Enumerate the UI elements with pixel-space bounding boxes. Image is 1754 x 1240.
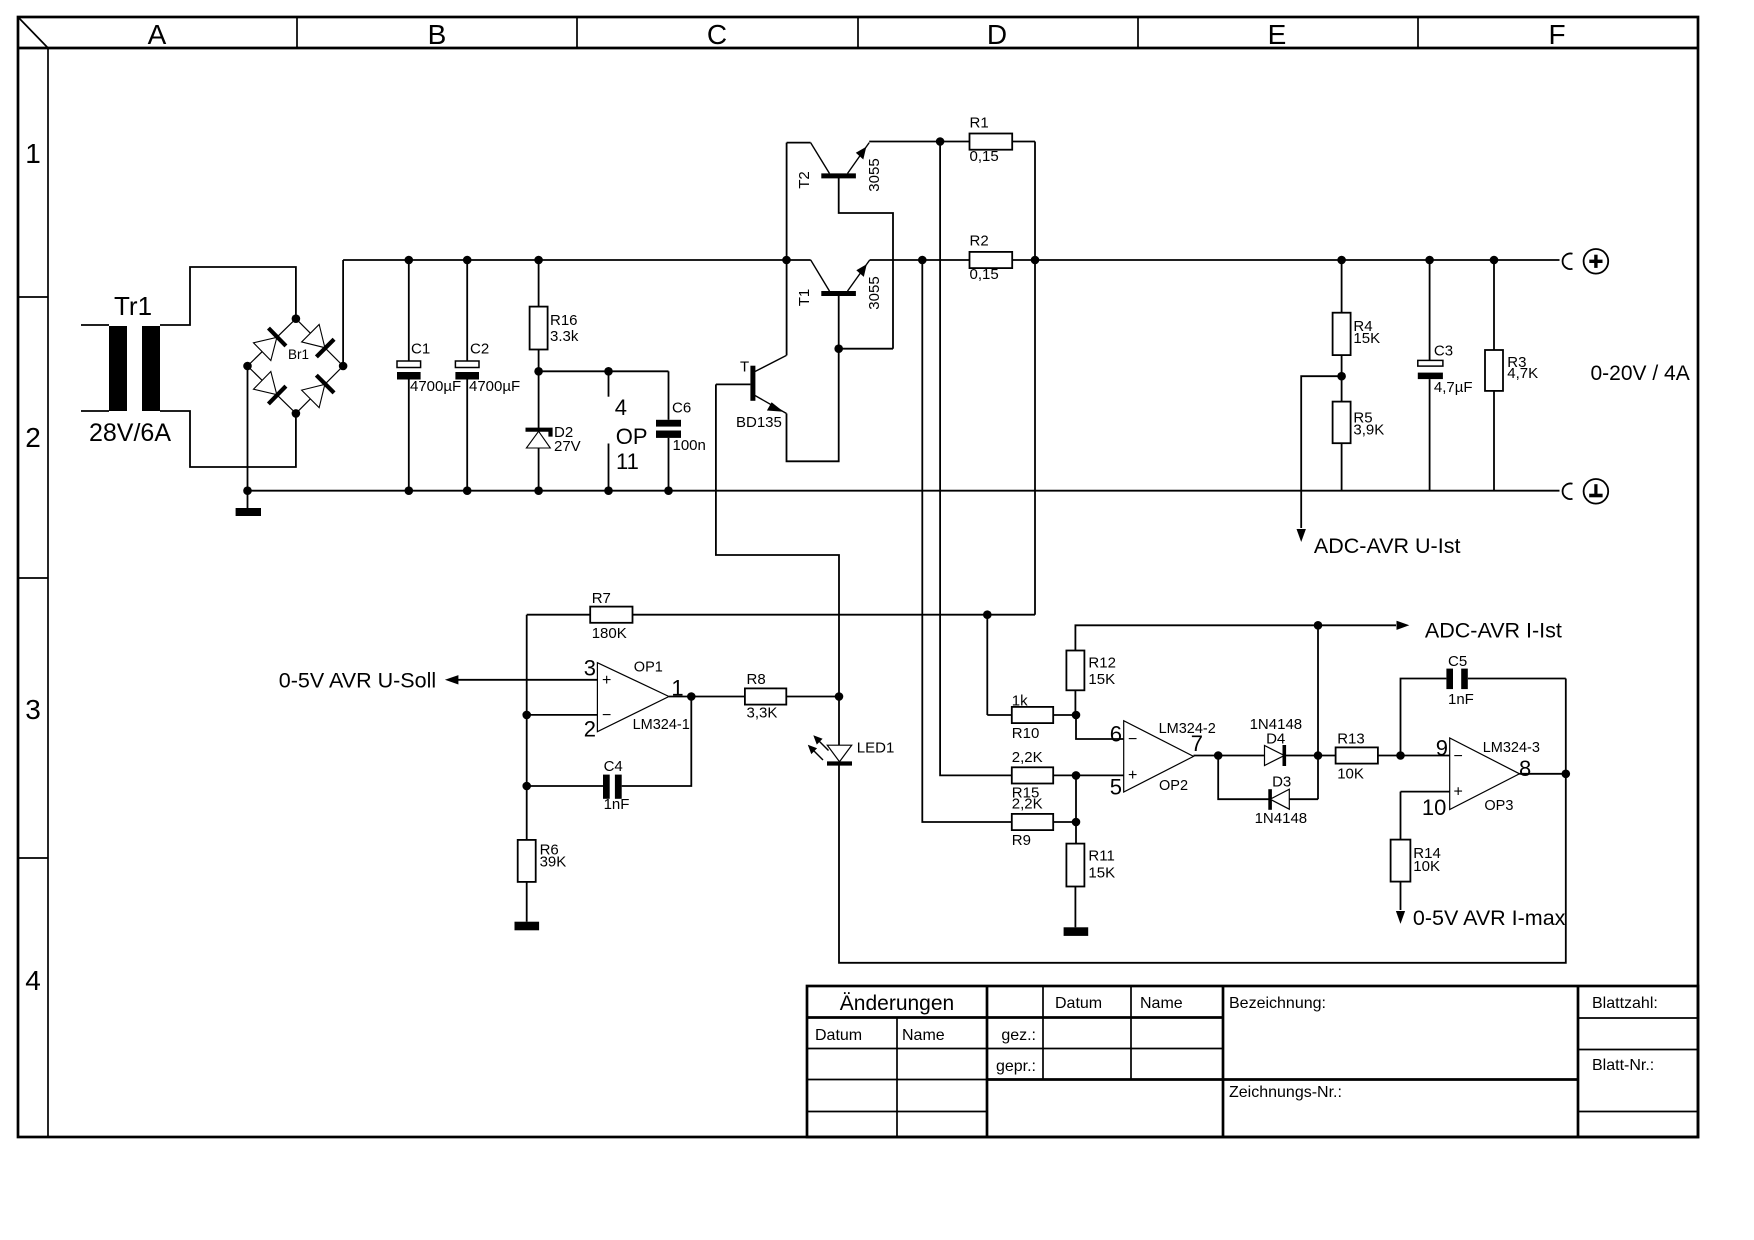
svg-text:D4: D4 (1266, 731, 1285, 748)
capacitor C5 (1401, 653, 1566, 756)
svg-text:15K: 15K (1088, 671, 1115, 688)
svg-text:C1: C1 (411, 341, 430, 358)
node I-Ist junction (1314, 621, 1323, 630)
svg-text:3: 3 (584, 655, 596, 680)
node OP3 output junction (1562, 770, 1571, 779)
svg-text:6: 6 (1110, 721, 1122, 746)
resistor R5 (1333, 376, 1385, 491)
svg-text:R9: R9 (1012, 832, 1031, 849)
svg-text:2: 2 (584, 717, 596, 742)
svg-text:gez.:: gez.: (1001, 1027, 1036, 1044)
svg-text:4: 4 (25, 965, 41, 996)
svg-text:1: 1 (25, 138, 41, 169)
wire T base drive line down (716, 384, 839, 696)
capacitor C2 (455, 260, 520, 491)
resistor R16 (530, 260, 579, 371)
svg-text:R8: R8 (747, 671, 766, 688)
svg-text:C5: C5 (1448, 653, 1467, 670)
wire C5 right down to OP3 output (1565, 679, 1567, 774)
svg-text:15K: 15K (1088, 864, 1115, 881)
svg-text:+: + (1128, 767, 1137, 784)
wire current sense line from R1 left (940, 142, 1012, 776)
svg-text:LM324-2: LM324-2 (1159, 721, 1216, 737)
svg-text:2,2K: 2,2K (1012, 796, 1043, 813)
diode D3 (1255, 774, 1318, 827)
wire top bus raw (343, 259, 811, 261)
svg-text:Name: Name (902, 1027, 945, 1044)
arrow 0-5V AVR I-max (1396, 911, 1405, 924)
op-amp OP3 (1401, 735, 1540, 820)
svg-text:4700µF: 4700µF (469, 378, 520, 395)
svg-text:10K: 10K (1413, 858, 1440, 875)
wire OP3 output (1520, 773, 1566, 775)
wire divider vertical (1075, 775, 1077, 843)
node R16/D2 junction (534, 367, 543, 376)
svg-text:100n: 100n (673, 437, 706, 454)
node output bus dots (918, 256, 1498, 265)
svg-text:3: 3 (25, 694, 41, 725)
LED LED1 (808, 697, 895, 764)
svg-text:1k: 1k (1012, 693, 1028, 710)
svg-text:7: 7 (1191, 731, 1203, 756)
op-amp supply pin 11 stub (608, 444, 610, 491)
wire base junction to T2 base (839, 348, 893, 350)
svg-text:−: − (1128, 731, 1137, 748)
transformer Tr1 (81, 291, 171, 447)
svg-text:Änderungen: Änderungen (840, 992, 954, 1015)
svg-text:0,15: 0,15 (970, 148, 999, 165)
wire vcc branch to op supply and C6 (539, 370, 669, 372)
svg-text:D3: D3 (1272, 774, 1291, 791)
svg-text:0-20V / 4A: 0-20V / 4A (1591, 362, 1690, 385)
transistor T BD135 (716, 355, 787, 431)
svg-text:3,9K: 3,9K (1353, 421, 1384, 438)
svg-text:T: T (740, 359, 749, 376)
svg-text:C6: C6 (672, 400, 691, 417)
svg-text:10K: 10K (1337, 765, 1364, 782)
svg-text:Blattzahl:: Blattzahl: (1592, 995, 1658, 1012)
zener diode D2 (526, 371, 581, 490)
wire T2 collector down to bus (786, 143, 788, 356)
arrow ADC-AVR I-Ist (1318, 624, 1396, 626)
svg-text:+: + (602, 672, 611, 689)
op-amp OP2 (1110, 721, 1216, 800)
wire current sense line from R2 left (922, 260, 1012, 822)
wire OP1 inverting node vertical (526, 615, 528, 840)
wire to OP2 pin 6 (1076, 715, 1124, 739)
svg-text:R1: R1 (970, 115, 989, 132)
wire Tr1 secondary bottom to bridge AC2 (160, 411, 296, 467)
svg-text:0-5V AVR I-max: 0-5V AVR I-max (1413, 906, 1566, 930)
wire OP2 output (1194, 755, 1265, 757)
resistor R4 (1333, 260, 1381, 376)
capacitor C1 (397, 260, 461, 491)
TITLE BLOCK (807, 986, 1698, 1137)
svg-text:T1: T1 (796, 289, 813, 307)
resistor R11 (1066, 844, 1115, 928)
capacitor C6 (656, 371, 706, 490)
svg-text:C4: C4 (604, 758, 623, 775)
svg-text:Name: Name (1140, 995, 1183, 1012)
svg-text:R7: R7 (592, 590, 611, 607)
wire bottom bus 0V (248, 490, 1560, 492)
resistor R10 (987, 693, 1076, 742)
node R1 left sense tap (936, 137, 945, 146)
svg-text:ADC-AVR U-Ist: ADC-AVR U-Ist (1314, 534, 1461, 558)
svg-text:LED1: LED1 (857, 740, 895, 757)
node R13 right junction (1396, 751, 1405, 760)
svg-text:4700µF: 4700µF (410, 378, 461, 395)
svg-text:4: 4 (615, 395, 627, 420)
svg-text:R10: R10 (1012, 725, 1040, 742)
wire T emitter to base junction (787, 349, 839, 462)
node OP2 output junction (1214, 751, 1223, 760)
op-amp OP1 (445, 655, 690, 741)
svg-text:0-5V AVR U-Soll: 0-5V AVR U-Soll (279, 669, 436, 693)
resistor R15 (1012, 749, 1124, 802)
ground (236, 491, 261, 516)
node op supply stub (604, 367, 613, 376)
resistor R13 (1318, 731, 1450, 783)
ground R11 (1064, 927, 1089, 936)
svg-text:Zeichnungs-Nr.:: Zeichnungs-Nr.: (1229, 1084, 1342, 1101)
wire bridge minus down (247, 366, 249, 491)
svg-text:27V: 27V (554, 438, 581, 455)
wire OP1 output (669, 696, 745, 698)
node R7 feedback tap for R10 (983, 610, 992, 619)
bridge rectifier Br1 (243, 314, 347, 417)
svg-text:Datum: Datum (815, 1027, 862, 1044)
node R8 right junction (835, 692, 844, 701)
svg-text:T2: T2 (796, 171, 813, 189)
node bus dots (243, 256, 791, 495)
resistor R12 (1066, 625, 1318, 715)
resistor R7 (527, 590, 1035, 642)
resistor R6 (518, 840, 567, 922)
svg-text:C: C (707, 19, 727, 50)
svg-text:3.3k: 3.3k (550, 328, 579, 345)
node R15 junction pin5 (1072, 771, 1081, 780)
svg-text:R12: R12 (1088, 654, 1116, 671)
svg-text:F: F (1548, 19, 1565, 50)
svg-text:E: E (1268, 19, 1287, 50)
terminal ground output (1563, 479, 1609, 504)
svg-text:1N4148: 1N4148 (1255, 810, 1308, 827)
svg-text:1nF: 1nF (604, 796, 630, 813)
resistor R2 (870, 233, 1560, 283)
svg-text:Br1: Br1 (288, 347, 309, 362)
svg-text:−: − (1454, 748, 1463, 765)
svg-text:ADC-AVR I-Ist: ADC-AVR I-Ist (1425, 619, 1562, 643)
terminal plus output (1563, 249, 1609, 274)
svg-text:4,7K: 4,7K (1507, 365, 1538, 382)
resistor R3 (1485, 260, 1538, 491)
svg-text:C3: C3 (1434, 343, 1453, 360)
resistor R14 (1391, 792, 1441, 910)
svg-text:2: 2 (25, 422, 41, 453)
svg-text:+: + (1454, 784, 1463, 801)
svg-text:1nF: 1nF (1448, 691, 1474, 708)
transistor T1 (796, 260, 883, 349)
svg-text:8: 8 (1519, 756, 1531, 781)
svg-text:R2: R2 (970, 233, 989, 250)
wire OP2 output down branch (1218, 756, 1270, 800)
node R10/R12 junction (1072, 711, 1081, 720)
svg-text:gepr.:: gepr.: (996, 1058, 1036, 1075)
svg-text:3,3K: 3,3K (747, 705, 778, 722)
svg-text:BD135: BD135 (736, 414, 782, 431)
svg-text:R13: R13 (1337, 731, 1365, 748)
svg-text:C2: C2 (470, 341, 489, 358)
diode D4 (1250, 716, 1318, 766)
resistor R1 (869, 115, 1035, 166)
svg-text:Datum: Datum (1055, 995, 1102, 1012)
transistor T2 (787, 143, 893, 349)
node R13 left junction (1314, 751, 1323, 760)
svg-text:28V/6A: 28V/6A (89, 419, 171, 447)
svg-text:D: D (987, 19, 1007, 50)
wire R1 right down to output bus (1034, 142, 1036, 615)
svg-text:OP2: OP2 (1159, 778, 1188, 794)
op-amp supply pin 4 stub (608, 371, 610, 396)
resistor R8 (745, 671, 839, 721)
svg-text:Tr1: Tr1 (114, 291, 152, 321)
svg-text:LM324-1: LM324-1 (633, 717, 690, 733)
svg-text:180K: 180K (592, 625, 627, 642)
svg-text:A: A (148, 19, 167, 50)
wire bridge plus up to bus (342, 260, 344, 366)
node OP1 output junction (687, 692, 696, 701)
capacitor C3 (1418, 260, 1473, 491)
svg-text:15K: 15K (1353, 330, 1380, 347)
wire R10 tap vertical (986, 615, 988, 715)
svg-text:3055: 3055 (866, 276, 883, 309)
capacitor C4 (522, 697, 691, 814)
svg-text:OP3: OP3 (1484, 798, 1513, 814)
svg-text:9: 9 (1436, 735, 1448, 760)
svg-text:R11: R11 (1088, 847, 1114, 864)
wire LED cathode down and across to OP3 output (839, 766, 1566, 963)
svg-text:R16: R16 (550, 312, 578, 329)
svg-text:39K: 39K (540, 854, 567, 871)
svg-text:B: B (428, 19, 447, 50)
svg-text:LM324-3: LM324-3 (1483, 740, 1540, 756)
svg-text:OP1: OP1 (634, 660, 663, 676)
svg-text:−: − (602, 707, 611, 724)
svg-text:11: 11 (616, 449, 639, 474)
svg-text:Bezeichnung:: Bezeichnung: (1229, 995, 1326, 1012)
svg-text:0,15: 0,15 (970, 266, 999, 283)
svg-text:Blatt-Nr.:: Blatt-Nr.: (1592, 1057, 1654, 1074)
svg-text:4,7µF: 4,7µF (1434, 379, 1473, 396)
svg-text:5: 5 (1110, 775, 1122, 800)
node T1 base junction (834, 344, 843, 353)
svg-text:10: 10 (1422, 795, 1446, 820)
svg-text:2,2K: 2,2K (1012, 749, 1043, 766)
wire D3 anode up to R13 node (1317, 625, 1319, 799)
svg-text:OP: OP (616, 424, 648, 449)
node R4/R5 junction (1337, 372, 1346, 381)
resistor R9 (1012, 796, 1076, 850)
wire Tr1 secondary top to bridge AC1 (160, 267, 296, 325)
ground R6 (515, 922, 540, 931)
svg-text:3055: 3055 (866, 158, 883, 191)
node R9 junction (1072, 818, 1081, 827)
wire ADC-AVR U-Ist tap (1301, 376, 1341, 528)
